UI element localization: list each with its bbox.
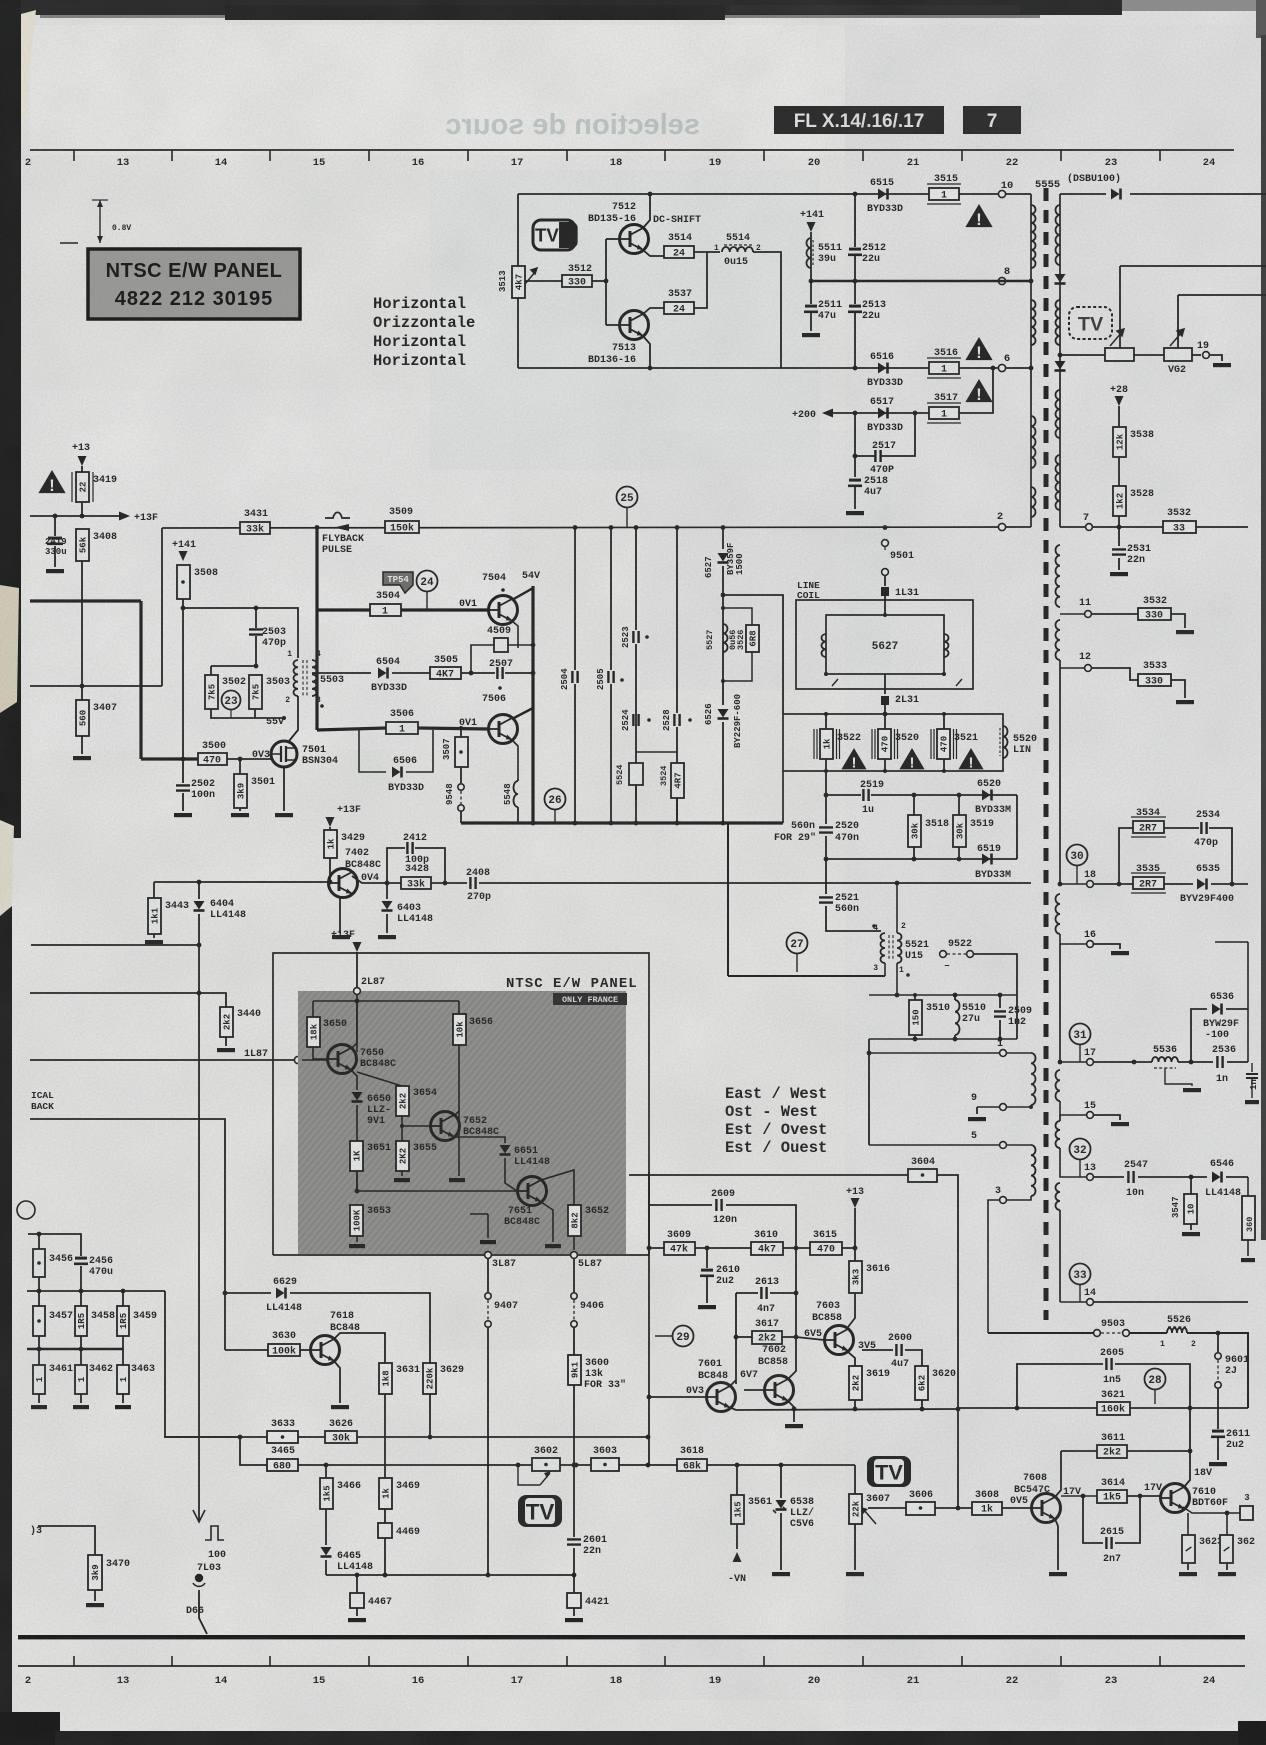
flyback pulse symbol	[325, 512, 350, 518]
wire +13F rail	[30, 515, 119, 517]
top ruler tick	[862, 150, 864, 161]
supply +13F arrow right	[119, 512, 130, 521]
bold wire 3506 row	[317, 728, 386, 730]
connector 1L31	[881, 587, 889, 596]
resistor 3461 1	[38, 1349, 40, 1365]
resistor 3652 8k2	[568, 1205, 581, 1236]
node 13 row	[1060, 1148, 1086, 1177]
box 3606	[906, 1502, 935, 1515]
ground 2511	[802, 333, 820, 337]
connector 2L87	[356, 952, 358, 988]
line coil 9501 connector	[882, 540, 889, 547]
capacitor 2412 100p loop	[387, 848, 405, 883]
wire base feed 3512	[525, 280, 562, 282]
wire 7602 collector	[788, 1337, 796, 1379]
wire 7650 collector to rail	[356, 1001, 358, 1043]
wire 5526 right	[1187, 1333, 1248, 1408]
node 11 row	[1060, 613, 1084, 615]
wire right rail x1017	[1016, 795, 1018, 859]
ground 3440	[217, 1048, 235, 1052]
panel lower rail	[357, 1190, 517, 1192]
capacitor 2601 22n	[567, 1539, 581, 1544]
wire y1233 top of 3456	[28, 1234, 81, 1256]
transistor 7402 BC848C	[329, 869, 358, 898]
wire 3500 to gate	[227, 758, 271, 760]
resistor 3533 330	[1138, 674, 1171, 686]
transistor 7618 BC848	[311, 1336, 340, 1365]
diode 6516 BYD33D	[878, 363, 887, 374]
resistor 3431 33k	[240, 522, 270, 534]
bottom ruler tick	[566, 1656, 568, 1666]
resistor 3538 12k	[1118, 406, 1120, 427]
wire 5521 pin3 row	[728, 975, 885, 977]
winding sec 7-11	[1056, 545, 1061, 607]
bottom ruler tick	[1060, 1656, 1062, 1666]
top ruler line	[30, 149, 1234, 151]
bottom ruler tick	[269, 1656, 271, 1666]
resistor 3470 3k9	[38, 1526, 95, 1555]
ground 3532b	[1171, 614, 1185, 628]
wire 7512 emitter to 3514	[643, 250, 664, 256]
top ruler tick	[269, 150, 271, 161]
node 12 row	[1060, 667, 1084, 669]
resistor 6R8 branch	[723, 608, 752, 625]
node 14 row	[1060, 1301, 1086, 1303]
capacitor 2520 470n	[825, 795, 827, 824]
resistor 3502 7k5	[210, 666, 212, 675]
wire 7501 source	[283, 767, 285, 811]
bottom ruler tick	[961, 1656, 963, 1666]
potentiometer focus	[1105, 348, 1134, 361]
wire 7402 collector row	[352, 876, 401, 883]
resistor 3505 4K7	[430, 667, 461, 679]
wire 3517 up to node6	[959, 368, 993, 413]
line coil outer box	[796, 600, 973, 689]
wire 3532 right	[1196, 526, 1248, 528]
wire 7608 emitter	[1055, 1519, 1058, 1570]
wire LIN box bottom taps	[824, 769, 828, 773]
resistor 3465 680	[267, 1459, 298, 1471]
top ruler tick	[368, 150, 370, 161]
resistor 3532 33	[1163, 521, 1196, 533]
block 3510 5510 2509 top rail	[869, 994, 1017, 996]
fuse resistor 3419 22	[81, 466, 83, 472]
wire 7601 emitter	[729, 1407, 736, 1410]
resistor 3631 1k8	[379, 1363, 392, 1394]
inductor 3522 1k	[820, 729, 833, 759]
connector 1L87	[294, 1056, 301, 1063]
wire 3505 to 2507	[461, 672, 495, 674]
inductor 5511 39u	[807, 238, 812, 268]
wire 6527 to line coil	[723, 595, 783, 714]
capacitor 2613 loop	[736, 1292, 758, 1294]
node 15 row	[1060, 1101, 1086, 1115]
panel top rail	[313, 1000, 459, 1002]
gray panel fill	[298, 991, 626, 1254]
wire 3626 row y1437	[164, 1436, 648, 1438]
capacitor 2505 column	[610, 527, 612, 670]
node 2	[998, 523, 1005, 530]
resistor 3537 24	[664, 302, 694, 314]
wire node8 rail	[811, 280, 1031, 282]
edge cap 1n	[1251, 1063, 1253, 1072]
connector 2L31	[884, 674, 886, 694]
resistor 3630 100k	[268, 1344, 300, 1356]
bottom black strip	[0, 1712, 60, 1745]
zener 6650 LLZ 9V1	[352, 1092, 363, 1101]
wire y1291	[27, 1290, 165, 1292]
circled 29	[655, 1335, 672, 1337]
wire D66 to border	[199, 1590, 207, 1634]
bottom ruler tick	[664, 1656, 666, 1666]
resistor 3611 2k2	[1097, 1445, 1127, 1458]
warning triangle 3520	[899, 748, 924, 769]
wire 3502 3503 top rail	[211, 665, 256, 667]
diode 6527 BY359F	[722, 527, 724, 549]
resistor 3650 18k	[312, 1001, 314, 1017]
connector 9406	[573, 1259, 575, 1292]
wire node3 down to 9503	[988, 1200, 999, 1333]
diode sec mid2	[1055, 361, 1066, 370]
circled 27	[787, 933, 808, 954]
node 16 row	[1060, 934, 1086, 944]
capacitor 2517 470P loop	[855, 413, 875, 456]
wire 5524 row	[636, 751, 677, 753]
capacitor 2502 100n	[182, 759, 184, 783]
wire 3535 to 6535	[1164, 883, 1193, 885]
bold wire 3504 to 7504 base	[401, 608, 489, 611]
resistor 3510 150	[914, 995, 916, 1000]
warning triangle 3516	[965, 337, 992, 360]
resistor 3528 1k2	[1113, 486, 1126, 516]
wire 4509 to bold	[508, 644, 533, 646]
resistor 3458 1R5	[80, 1291, 82, 1306]
wire 9522 right	[974, 954, 1017, 1039]
diode 6526 BY229F-600	[722, 595, 724, 705]
resistor 3407 560	[76, 700, 89, 736]
block bottom rail	[869, 1038, 1017, 1040]
wire y1575	[326, 1574, 574, 1576]
wire 7608 collector	[1055, 1451, 1061, 1497]
wire 7650 collector	[351, 1043, 357, 1049]
header box FL X.14/.16/.17	[774, 106, 944, 134]
line coil right winding	[944, 634, 949, 657]
warning triangle +13	[38, 470, 65, 493]
circled 28	[1145, 1369, 1166, 1390]
resistor 3655 2K2	[401, 1126, 403, 1141]
capacitor 2534 470p	[1164, 827, 1199, 829]
winding sec 17-15	[1056, 1070, 1061, 1101]
top ruler tick	[1060, 150, 1062, 161]
circled 25	[617, 487, 638, 508]
resistor 3500 470	[198, 753, 227, 765]
wire 2507 to bold	[505, 672, 533, 674]
capacitor 2523 column	[635, 527, 637, 630]
resistor 3524 4R7	[671, 763, 684, 798]
diode 6651 LL4148	[500, 1145, 511, 1154]
resistor 3624	[1226, 1513, 1228, 1535]
wire 7602 emitter	[788, 1401, 796, 1409]
wire 3428 right	[431, 882, 467, 884]
wire wiper row y1508	[868, 1507, 906, 1509]
ground 3501	[231, 813, 249, 817]
resistor 3459 1R5	[122, 1291, 124, 1306]
capacitor 2408 270p	[470, 877, 475, 889]
wire 5503 sec to 6504	[312, 672, 371, 674]
resistor 3619 2k2	[849, 1366, 862, 1400]
transistor 7513	[620, 311, 649, 340]
circled 26	[545, 789, 566, 810]
circled 24	[417, 571, 438, 592]
resistor 3408 56k	[76, 529, 89, 561]
resistor 3615 470	[810, 1242, 842, 1255]
wire sec top y194	[1060, 193, 1106, 195]
test point TP54	[383, 572, 413, 593]
resistor 3653 100K	[356, 1191, 358, 1205]
ground 7501	[275, 813, 293, 817]
node 3	[1000, 1197, 1007, 1204]
wire base split vertical	[605, 239, 607, 325]
capacitor 2536 1n	[1217, 1056, 1222, 1068]
wire y993	[30, 993, 226, 1007]
inductor 5548	[517, 779, 519, 781]
inductor 5526	[1130, 1332, 1167, 1334]
wire y295 right	[1178, 294, 1266, 296]
capacitor 2419 330u	[54, 516, 56, 536]
resistor 3443 1k1	[153, 882, 155, 898]
wire y1060 1L87	[30, 1059, 294, 1061]
left margin black strip	[0, 0, 21, 838]
resistor 3623	[1187, 1513, 1189, 1535]
wire 7651 collector to 3652	[541, 1170, 574, 1205]
wire 3604 row	[629, 1174, 908, 1176]
node 8	[998, 277, 1005, 284]
resistor 3503 7k5	[249, 675, 262, 709]
capacitor 2547 10n	[1128, 1171, 1133, 1183]
capacitor 2615 2n7 loop	[1083, 1496, 1103, 1543]
transistor 7512	[620, 225, 649, 254]
zener 6538 LLZ C5V6	[780, 1465, 782, 1498]
wire 5521 pin2 from bus	[896, 883, 898, 933]
bottom ruler tick	[862, 1656, 864, 1666]
box 3633	[267, 1431, 298, 1443]
wire 5503 pin2 to 7501 drain	[289, 696, 298, 741]
resistor 3466 1k5	[325, 1465, 327, 1478]
TV icon bottom right	[867, 1456, 911, 1487]
wire 6504 to 3505	[392, 672, 430, 674]
wire 7601 base	[649, 1396, 706, 1398]
wire sec segment 668-884	[1059, 660, 1061, 884]
diode 6546 LL4148	[1212, 1172, 1221, 1183]
bottom ruler tick	[368, 1656, 370, 1666]
supply -VN	[733, 1552, 742, 1562]
resistor 3507	[460, 728, 462, 737]
top ruler tick	[961, 150, 963, 161]
wire 6519 row	[826, 858, 1017, 860]
mosfet 7501	[271, 741, 297, 767]
box 3603	[591, 1458, 619, 1471]
capacitor 2528 column	[676, 527, 678, 713]
wire 3502 3503 bottom rail	[211, 709, 284, 718]
box 3456	[38, 1234, 40, 1249]
diode 6517 BYD33D	[878, 408, 887, 419]
transistor 7650 BC848C	[328, 1045, 357, 1074]
node junction 650,194	[648, 192, 653, 197]
inductor 5520 LIN	[1003, 726, 1008, 758]
wire 9503 row	[988, 1332, 1093, 1334]
inductor 3520 470	[878, 729, 891, 759]
capacitor 2504 column	[574, 527, 576, 670]
resistor 3620 6k2	[915, 1366, 928, 1400]
capacitor 2513 22u	[854, 281, 856, 304]
wire 7610 emitter	[1183, 1507, 1248, 1513]
resistor 3514 24	[664, 246, 694, 258]
resistor 3519 30k	[958, 795, 960, 815]
wire 3614 row	[1061, 1495, 1097, 1497]
edge resistor 360 cut	[1247, 1177, 1249, 1196]
capacitor 2518 4u7	[853, 454, 858, 459]
wire 7402 emitter	[339, 896, 341, 933]
wire pot2 up	[1177, 295, 1179, 348]
bottom ruler tick	[763, 1656, 765, 1666]
wire 7602 base	[744, 1389, 764, 1391]
wire vg row y355	[1060, 354, 1105, 356]
capacitor 2531 22n	[1118, 527, 1120, 546]
bold bus y823	[461, 821, 783, 824]
inductor 5514 0u15	[722, 247, 753, 252]
bold wire 3506 to 7506 base	[418, 728, 489, 729]
warning triangle 3522	[841, 748, 866, 769]
pot 3607 22k	[849, 1494, 862, 1524]
resistor 3517 1	[929, 407, 959, 419]
wire pot1 up	[1119, 266, 1121, 348]
bottom border thick line	[18, 1635, 1245, 1639]
node 5	[869, 1144, 999, 1146]
capacitor 2456 470u	[75, 1257, 87, 1260]
wire 7506 collector	[512, 708, 533, 719]
wire bottom rail y368	[518, 367, 1031, 369]
ground 2531	[1110, 572, 1128, 576]
wire to 7512 base	[606, 238, 619, 240]
ground 2502	[174, 813, 192, 817]
circled 33	[1070, 1264, 1091, 1285]
capacitor 2605 1n5 loop	[1017, 1364, 1103, 1408]
wire emitter rail y1409	[736, 1409, 958, 1410]
connector 3L87	[485, 1252, 492, 1259]
wire y608 to transformer	[183, 608, 298, 658]
resistor 3469 1k	[379, 1478, 392, 1509]
wire 3604 to drop	[937, 1175, 958, 1508]
box 4469	[378, 1523, 392, 1538]
node 1	[869, 1052, 999, 1054]
transistor 7504	[489, 596, 518, 625]
transistor 7501 BSN304 gate row	[139, 601, 142, 759]
connector 9407	[487, 1259, 489, 1292]
bottom ruler tick	[171, 1656, 173, 1666]
diode sec top	[1111, 189, 1120, 200]
wire 5521 pin1 down	[896, 963, 898, 995]
line coil inner box	[826, 615, 944, 674]
wire 2519 row	[826, 771, 861, 795]
connector 9503	[1094, 1330, 1101, 1337]
wire to 7513 base	[606, 324, 619, 326]
wire 7650 emitter	[351, 1070, 357, 1090]
bold wire 3504 row	[317, 608, 370, 611]
wire 7610 collector	[1184, 1451, 1190, 1487]
circled 23	[222, 691, 241, 710]
diode sec mid1	[1055, 274, 1066, 283]
capacitor 2524	[633, 714, 638, 726]
right edge rail upper	[1247, 942, 1249, 1062]
connector 9522	[897, 953, 939, 955]
wire bias row y1248	[649, 1247, 855, 1249]
wire 3607 riser	[854, 1465, 856, 1494]
TV icon dotted	[1069, 307, 1112, 339]
resistor 3440 2k2	[220, 1007, 233, 1037]
resistor 3600 9k1	[568, 1355, 581, 1385]
long drop x165	[165, 1291, 240, 1437]
wire 7504 collector	[512, 586, 533, 600]
top ruler tick	[1159, 150, 1161, 161]
resistor 3535 2R7	[1133, 877, 1164, 889]
box 3604	[908, 1169, 937, 1182]
wire top rail y194	[518, 193, 1031, 195]
box 3457	[38, 1291, 40, 1306]
node 9	[977, 1106, 999, 1108]
TV icon DC block	[533, 220, 575, 250]
top ruler tick	[664, 150, 666, 161]
wire 7652 collector	[454, 1111, 459, 1116]
ground 3656 leg	[449, 1178, 465, 1182]
dimension 0.8V	[99, 200, 101, 243]
node 6	[998, 364, 1005, 371]
connector 7L03 D66 line	[198, 1437, 200, 1510]
winding sec 1-9	[1007, 1052, 1031, 1054]
wire 5514 to right vertical	[753, 252, 781, 368]
wire 3630 row	[225, 1349, 268, 1351]
resistor 3513 4k7 vertical on left edge	[512, 266, 525, 298]
warning triangle 3521	[958, 748, 983, 769]
winding sec 15-13	[1059, 1115, 1061, 1121]
diode 6504 BYD33D	[378, 668, 387, 679]
connector 9548	[458, 784, 464, 790]
diode 6536 branch	[1191, 1009, 1207, 1062]
wire LIN box to bus	[782, 771, 784, 823]
capacitor 2610 2u2	[706, 1248, 708, 1268]
transistor 7608 BC547C	[1032, 1494, 1061, 1523]
edge box 3	[1240, 1506, 1253, 1520]
ground node19	[1210, 355, 1222, 361]
wire 7512 collector to top rail	[643, 194, 650, 228]
wire sec segment 944-1062	[1059, 944, 1061, 1062]
resistor 3515 1	[929, 188, 959, 200]
transformer 5555 primary winding	[1030, 194, 1032, 527]
resistor 3534 2R7 parallel branch	[1119, 828, 1133, 884]
ground 2610	[698, 1305, 716, 1309]
ground node16	[1094, 944, 1120, 949]
LIN block box	[783, 714, 1003, 771]
diode 6519 BYD33M	[982, 854, 991, 865]
wire 3512 to bases	[592, 280, 606, 282]
ground 2518	[846, 511, 864, 515]
wire 3621 row	[958, 1407, 1248, 1409]
capacitor 2519 1u	[863, 789, 868, 801]
circled 31	[1070, 1024, 1091, 1045]
wire 7652 emitter to 6651	[454, 1137, 505, 1143]
resistor 3656 10k	[458, 1001, 460, 1014]
node 17 row	[1058, 1060, 1063, 1065]
resistor 3509 150k	[385, 521, 419, 533]
